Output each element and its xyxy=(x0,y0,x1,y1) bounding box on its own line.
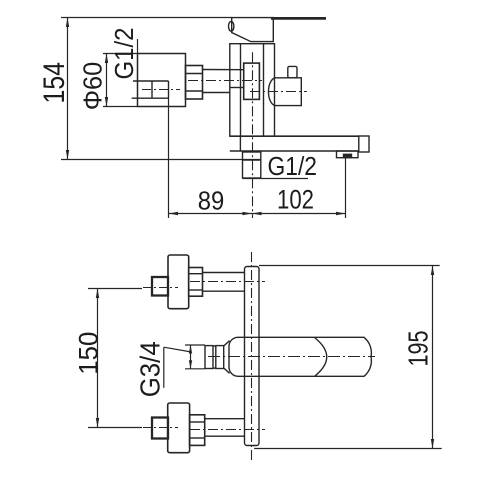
dim 195 bottom extension xyxy=(254,448,442,450)
body inner vertical left xyxy=(240,44,242,137)
arrow left xyxy=(169,212,179,215)
bracket foot xyxy=(337,151,359,158)
phi60 dimension line xyxy=(106,54,108,107)
dim 89 left extension xyxy=(168,98,170,218)
eccentric block left edge xyxy=(151,81,153,98)
bottom nut facets xyxy=(190,421,205,423)
dim 195 arrow up xyxy=(431,266,434,276)
svg-text:G3/4: G3/4 xyxy=(135,341,166,397)
dim 154 arrow down xyxy=(66,150,69,160)
G3/4 leader elbow xyxy=(163,347,165,388)
phi60 arrow up xyxy=(105,54,108,64)
svg-text:102: 102 xyxy=(277,185,314,215)
eccentric block top line xyxy=(133,80,169,82)
capsule seam arc xyxy=(315,338,327,376)
top nut facets xyxy=(189,273,203,275)
handle pivot ellipse xyxy=(229,21,234,31)
bracket foot screw xyxy=(344,154,352,157)
svg-text:G1/2: G1/2 xyxy=(109,28,139,80)
dim 154 bottom extension line xyxy=(61,159,261,161)
nipple shoulder xyxy=(243,159,261,161)
phi60 top extension line xyxy=(103,53,138,55)
cartridge rect xyxy=(244,63,260,99)
bottom union wall block xyxy=(152,418,168,439)
dim 150 arrow up xyxy=(96,289,99,299)
body center line (vertical dash-dot) xyxy=(252,52,254,218)
svg-text:154: 154 xyxy=(38,62,71,104)
dim 154 dimension line xyxy=(67,18,69,160)
top union flange xyxy=(168,255,189,309)
nut facet line upper xyxy=(186,73,203,75)
svg-text:89: 89 xyxy=(198,186,225,216)
inner channel line xyxy=(230,87,244,89)
inlet pipe bottom edge xyxy=(203,92,230,94)
bracket bottom line xyxy=(230,150,359,152)
svg-text:150: 150 xyxy=(73,332,103,375)
eccentric block right edge xyxy=(168,81,170,98)
bracket step vertical xyxy=(239,136,241,151)
body capsule xyxy=(229,337,371,376)
arrows center xyxy=(243,212,253,215)
bracket end cap xyxy=(359,136,369,152)
top pipe edges xyxy=(203,272,245,274)
body inner vertical right xyxy=(263,44,265,137)
nut facet line lower xyxy=(186,90,203,92)
G3/4 small dim line xyxy=(190,345,192,369)
dim 150 arrow down xyxy=(96,418,99,428)
G3/4 fitting ring 1 xyxy=(205,346,213,369)
G3/4 small dim extension bottom xyxy=(185,368,205,370)
bottom pipe edges xyxy=(205,418,245,420)
dim 150 bottom extension xyxy=(88,427,142,429)
inlet pipe top edge xyxy=(203,69,244,71)
bracket top line xyxy=(230,135,359,137)
bottom wall axis dash-dot xyxy=(143,427,178,429)
hex nut side view xyxy=(186,66,203,100)
top wall axis dash-dot xyxy=(143,287,178,289)
fitting connector lines xyxy=(213,345,216,347)
lever bar xyxy=(271,17,326,20)
G3/4 fitting ring 2 xyxy=(216,346,224,369)
svg-text:195: 195 xyxy=(403,331,434,367)
svg-text:Φ60: Φ60 xyxy=(78,62,108,111)
dim 195 top extension xyxy=(259,265,440,267)
G1/2 top leader xyxy=(137,39,139,54)
dim 89/102 dimension line xyxy=(169,213,346,215)
plate centerline dash-dot xyxy=(251,252,253,460)
handle outline xyxy=(232,18,274,42)
svg-text:G1/2: G1/2 xyxy=(268,153,318,181)
fitting cone bottom xyxy=(224,368,230,373)
bottom nipple xyxy=(243,152,261,178)
bottom union nut xyxy=(190,415,205,446)
G1/2 underline leader xyxy=(243,178,309,180)
wall axis dash-dot xyxy=(142,89,180,91)
dim 102 right extension xyxy=(345,158,347,218)
bottom union flange xyxy=(168,403,190,453)
dim 150 top extension xyxy=(88,288,142,290)
arrow right xyxy=(336,212,346,215)
top union axis dash-dot xyxy=(190,281,265,283)
wall flange rect xyxy=(138,54,186,107)
G3/4 dim arrows xyxy=(189,345,192,354)
dim 195 arrow down xyxy=(431,439,434,449)
dim 195 dimension line xyxy=(432,266,434,449)
bottom union axis dash-dot xyxy=(190,429,265,431)
dim 154 top extension line xyxy=(61,17,232,19)
outlet axis dash-dot xyxy=(250,91,307,93)
mounting plate xyxy=(245,267,260,446)
shower outlet body xyxy=(268,78,301,106)
dim 154 arrow up xyxy=(66,18,69,28)
fitting cone top xyxy=(224,341,230,346)
outlet knob stub xyxy=(288,66,297,77)
dim 150 dimension line xyxy=(97,289,99,428)
body outer xyxy=(230,44,275,137)
top union nut xyxy=(189,268,203,297)
top union wall block xyxy=(152,277,168,296)
phi60 bottom extension line xyxy=(103,106,138,108)
capsule axis dash-dot xyxy=(208,356,375,358)
G3/4 small dim extension top xyxy=(185,344,205,346)
phi60 arrow down xyxy=(105,97,108,107)
inlet axis (dash-dot) xyxy=(188,80,262,82)
eccentric block bottom line xyxy=(132,97,169,99)
